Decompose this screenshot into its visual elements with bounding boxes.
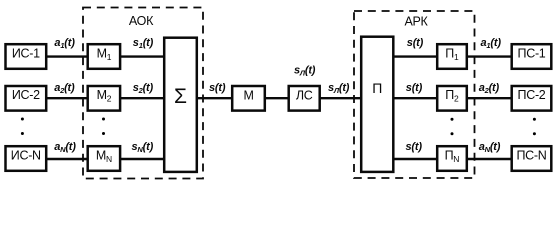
signal label s2(t) [133,82,154,95]
wire IS-1 to M1 [46,55,88,57]
signal label s1(t) [133,37,154,50]
signal label s(t) P to P2 [406,82,423,94]
signal label a2(t) right [479,82,500,95]
wire P1 to PS-1 [467,55,512,57]
svg-text:ИС-2: ИС-2 [12,88,40,102]
svg-text:aN(t): aN(t) [479,141,501,154]
svg-text:АОК: АОК [129,14,154,28]
block PS-N [512,146,552,171]
svg-text:sЛ(t): sЛ(t) [328,82,350,95]
dashed group box APK [354,11,475,178]
signal label aN(t) left [54,141,76,154]
svg-text:ЛС: ЛС [296,89,313,103]
svg-text:aN(t): aN(t) [54,141,76,154]
svg-text:АРК: АРК [404,14,428,28]
block Sigma (summator) [164,38,197,172]
block M (group modulator) [232,86,265,111]
label AOK [129,14,154,28]
signal label a1(t) right [481,37,502,50]
wire Sigma to M [197,97,232,99]
block P (group receiver) [361,37,393,172]
wire LS to P [320,97,361,99]
block P2 (receiver 2) [437,86,467,111]
wire PN to PS-N [467,158,512,160]
svg-text:s(t): s(t) [406,82,423,94]
signal label sN(t) [132,141,154,154]
block PS-2 [512,86,552,111]
svg-text:ИС-N: ИС-N [11,148,41,162]
svg-text:ПС-2: ПС-2 [518,88,546,102]
wire P to PN [393,158,437,160]
block MN (modulator N) [88,146,120,171]
svg-text:sЛ(t): sЛ(t) [294,65,316,78]
svg-text:s(t): s(t) [209,82,226,94]
ellipsis dots PS column [533,118,536,136]
block IS-2 [6,86,47,111]
block PS-1 [512,44,552,69]
wire IS-2 to M2 [46,97,88,99]
svg-text:a2(t): a2(t) [54,82,75,95]
svg-text:Σ: Σ [174,85,187,108]
wire P to P1 [393,55,437,57]
svg-text:ИС-1: ИС-1 [12,47,40,61]
signal label sL(t) above LS [294,65,316,78]
wire M to LS [265,97,289,99]
svg-text:П: П [372,80,382,96]
ellipsis dots M column [102,118,105,136]
block PN (receiver N) [437,146,467,171]
signal label sL(t) between LS and P [328,82,350,95]
block M1 (modulator 1) [88,44,120,69]
svg-text:sN(t): sN(t) [132,141,154,154]
block P1 (receiver 1) [437,44,467,69]
signal label a2(t) [54,82,75,95]
svg-text:s(t): s(t) [406,141,423,153]
svg-text:a1(t): a1(t) [481,37,502,50]
wire IS-N to MN [46,158,88,160]
svg-text:ПС-N: ПС-N [516,148,546,162]
svg-text:a1(t): a1(t) [54,37,75,50]
svg-text:М: М [243,89,253,103]
signal label a1(t) [54,37,75,50]
block IS-N [6,146,47,171]
block M2 (modulator 2) [88,86,120,111]
signal label s(t) P to PN [406,141,423,153]
svg-text:s(t): s(t) [407,37,424,49]
wire P to P2 [393,97,437,99]
dashed group box AOK [83,8,203,179]
svg-text:s2(t): s2(t) [133,82,154,95]
signal label aN(t) right [479,141,501,154]
block LS (line of communication) [289,86,320,111]
wire M1 to Sigma [120,55,164,57]
svg-text:ПС-1: ПС-1 [518,47,546,61]
wire MN to Sigma [120,158,164,160]
wire P2 to PS-2 [467,97,512,99]
svg-text:a2(t): a2(t) [479,82,500,95]
svg-text:s1(t): s1(t) [133,37,154,50]
wire M2 to Sigma [120,97,164,99]
signal label s(t) P to P1 [407,37,424,49]
block IS-1 [6,44,47,69]
ellipsis dots P column [451,118,454,136]
label APK [404,14,428,28]
signal label s(t) after Sigma [209,82,226,94]
ellipsis dots IS column [21,118,24,136]
